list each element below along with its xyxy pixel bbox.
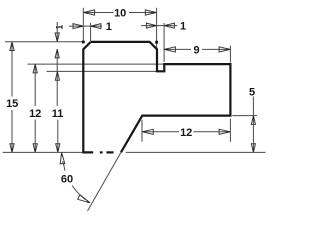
svg-text:1: 1	[55, 25, 65, 30]
angle 60 arrow at baseline	[60, 153, 65, 164]
dimension 9 line	[164, 48, 230, 50]
svg-text:1: 1	[180, 21, 186, 33]
dimension 11 top arrow	[55, 72, 59, 81]
dimension 12 bottom line	[142, 131, 230, 133]
dimension 12 top arrow	[33, 64, 37, 73]
svg-text:9: 9	[193, 44, 199, 56]
dimension 15 top arrow	[10, 42, 14, 51]
chamfer width dim 1 extension line	[90, 23, 92, 41]
groove width dim 1 right arrow	[164, 23, 174, 28]
dimension 12 line	[34, 64, 36, 152]
dimension 9 left arrow	[164, 47, 175, 52]
dimension 9 right arrow	[219, 47, 230, 52]
node marker at groove top corner	[155, 41, 158, 44]
extension line of groove bottom for dim 11	[47, 70, 161, 72]
dimension 9 extension line right	[229, 46, 231, 63]
dimension 12 bottom extension line right	[229, 119, 231, 142]
dimension 10 line	[83, 12, 156, 14]
extension line from top surface for dim 15	[5, 41, 82, 43]
groove width dim 1 line	[141, 25, 177, 27]
chamfer width dim 1 line	[69, 25, 102, 27]
svg-text:15: 15	[6, 98, 18, 110]
chamfer height dim 1 line	[56, 22, 58, 106]
svg-text:12: 12	[180, 127, 192, 139]
extension line from right-portion bottom for dim 5	[232, 115, 257, 117]
dimension 5 bottom arrow	[251, 144, 255, 153]
chamfer width dim 1 left arrow	[73, 24, 83, 29]
angle 60 arc segment 2	[72, 186, 85, 200]
thin extension of 60-degree line below baseline	[88, 152, 122, 211]
groove width dim 1 left arrow	[146, 23, 156, 28]
svg-text:60: 60	[61, 173, 73, 185]
part outline left edge with top chamfer and bottom stub	[83, 42, 93, 152]
angle 60 arrow at slanted line	[78, 195, 90, 203]
node marker at virtual top-left corner	[82, 41, 85, 44]
dimension 12 bottom left arrow	[142, 129, 153, 134]
svg-text:12: 12	[29, 108, 41, 120]
dimension 11 bottom arrow	[56, 144, 60, 153]
dimension 10 extension line right	[156, 8, 158, 49]
groove width dim 1 extension line right	[163, 23, 165, 62]
centerline dash on bottom edge	[106, 151, 113, 153]
dimension 10 left arrow	[84, 10, 95, 15]
dimension 12 bottom right arrow	[219, 129, 230, 134]
dimension 15 bottom arrow	[10, 144, 14, 153]
svg-text:5: 5	[249, 87, 255, 99]
bottom baseline thin right segment	[126, 151, 266, 153]
bottom baseline thin left segment	[3, 151, 83, 153]
extension line of right step surface for dim 12	[28, 63, 164, 65]
dimension 5 top arrow	[251, 116, 255, 125]
centerline dot on bottom edge	[100, 151, 103, 153]
svg-text:1: 1	[106, 21, 112, 33]
dimension 12 bottom extension line left	[141, 120, 143, 142]
svg-text:10: 10	[114, 7, 126, 19]
svg-text:11: 11	[52, 108, 64, 120]
chamfer height dim 1 lower arrow	[55, 49, 59, 58]
chamfer width dim 1 right arrow	[91, 24, 101, 29]
dimension 12 bottom arrow	[33, 144, 37, 153]
dimension 10 extension line left	[82, 8, 84, 41]
dimension 10 right arrow	[145, 10, 156, 15]
angle 60 arc segment 1	[63, 161, 65, 171]
dimension 5 line	[252, 97, 254, 153]
chamfer height dim 1 upper arrow	[55, 33, 59, 42]
dimension 15 line	[11, 42, 13, 153]
part outline top edge groove step right edge and 60-degree cut	[91, 42, 231, 152]
dimension 11 line lower part	[57, 120, 59, 153]
